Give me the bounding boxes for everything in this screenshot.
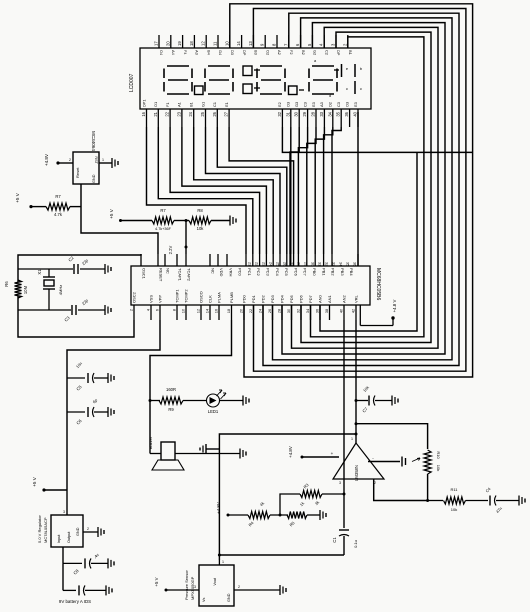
svg-text:F1: F1 <box>165 102 170 107</box>
svg-text:11: 11 <box>213 41 218 46</box>
svg-text:14: 14 <box>236 41 241 46</box>
svg-text:PD4: PD4 <box>280 294 285 303</box>
svg-text:23: 23 <box>176 111 181 116</box>
svg-text:27: 27 <box>224 111 229 116</box>
svg-text:VSS: VSS <box>149 295 154 303</box>
svg-text:PD5: PD5 <box>289 294 294 303</box>
svg-text:35: 35 <box>346 262 350 266</box>
svg-text:O2: O2 <box>265 50 270 55</box>
svg-text:d: d <box>329 94 331 98</box>
wire OSC2 net <box>18 296 134 337</box>
capacitor C5 <box>67 361 114 392</box>
wire buzzer net from MCU <box>150 320 232 447</box>
svg-text:+4.8 V: +4.8 V <box>392 300 397 313</box>
svg-text:19: 19 <box>177 41 182 46</box>
svg-text:DP: DP <box>336 50 341 56</box>
ground at sensor <box>234 585 286 595</box>
svg-text:AN0: AN0 <box>318 294 323 303</box>
ground at regulator <box>83 527 104 537</box>
svg-text:PD1: PD1 <box>251 294 256 303</box>
svg-text:+4.8V: +4.8V <box>44 153 49 166</box>
svg-text:6: 6 <box>156 309 160 311</box>
crystal X1 <box>37 269 63 310</box>
svg-text:27: 27 <box>290 262 294 266</box>
svg-text:VDD: VDD <box>219 268 224 277</box>
svg-text:O4: O4 <box>159 50 164 56</box>
op-amp minus wire to trimpot wiper <box>368 456 420 467</box>
svg-text:PC0: PC0 <box>238 268 243 277</box>
svg-text:CLK: CLK <box>208 295 213 303</box>
pressure sensor U6 MPX5050GP <box>184 560 234 606</box>
svg-text:40: 40 <box>353 111 358 116</box>
svg-text:VRL: VRL <box>354 294 359 303</box>
svg-text:+4.8V: +4.8V <box>288 446 293 458</box>
svg-text:GND: GND <box>92 174 96 183</box>
svg-text:PC6: PC6 <box>293 268 298 277</box>
LED1 <box>207 390 250 414</box>
svg-text:18: 18 <box>189 41 194 46</box>
svg-text:30: 30 <box>311 262 315 266</box>
+4.8V to MC34064 input <box>44 153 73 166</box>
svg-text:G2: G2 <box>313 50 318 55</box>
svg-text:29: 29 <box>304 262 308 266</box>
wire staircase: display bottom-left pins to MCU top pins <box>147 127 294 254</box>
svg-text:2: 2 <box>130 309 134 311</box>
svg-text:A4: A4 <box>171 50 176 56</box>
svg-text:TCMP2: TCMP2 <box>184 289 189 303</box>
svg-text:PB3: PB3 <box>340 268 345 276</box>
svg-text:VRH: VRH <box>228 268 233 277</box>
svg-text:+5 V: +5 V <box>32 476 37 487</box>
svg-text:E3: E3 <box>311 102 316 107</box>
op-amp U5 LM358 <box>333 437 384 485</box>
svg-text:32: 32 <box>297 309 301 313</box>
svg-text:B3: B3 <box>254 50 259 55</box>
svg-text:4MHz: 4MHz <box>58 285 63 295</box>
svg-text:33: 33 <box>319 111 324 116</box>
svg-text:c: c <box>360 86 362 91</box>
svg-text:10M: 10M <box>23 285 28 294</box>
svg-text:36: 36 <box>316 309 320 313</box>
svg-text:C3: C3 <box>302 102 307 107</box>
capacitor C2 22p <box>67 255 111 274</box>
svg-text:33: 33 <box>332 262 336 266</box>
svg-text:+5 V: +5 V <box>109 208 114 219</box>
capacitor C1 <box>218 530 358 557</box>
svg-text:NC: NC <box>211 268 216 274</box>
svg-text:30: 30 <box>287 309 291 313</box>
svg-text:PB1: PB1 <box>321 268 326 276</box>
svg-text:2: 2 <box>69 158 71 162</box>
svg-text:PLMA: PLMA <box>217 292 222 303</box>
svg-text:LM358N: LM358N <box>354 465 359 481</box>
svg-text:A3: A3 <box>319 102 324 107</box>
svg-text:c: c <box>346 86 348 91</box>
svg-text:10: 10 <box>182 309 186 313</box>
svg-text:36: 36 <box>344 111 349 116</box>
resistor R6 10M <box>4 280 28 298</box>
svg-text:38: 38 <box>325 309 329 313</box>
svg-text:Output: Output <box>67 531 71 543</box>
svg-text:Vs: Vs <box>202 597 206 602</box>
resistor R4 <box>247 501 288 528</box>
svg-text:PC2: PC2 <box>256 268 261 277</box>
svg-text:PC3: PC3 <box>266 268 271 277</box>
svg-text:22: 22 <box>249 309 253 313</box>
svg-text:PC1: PC1 <box>247 268 252 277</box>
svg-text:1: 1 <box>351 437 353 441</box>
ground tap on sensor line <box>200 444 219 454</box>
svg-text:B2: B2 <box>301 50 306 55</box>
svg-text:20: 20 <box>165 41 170 46</box>
svg-text:2: 2 <box>87 527 89 531</box>
svg-text:10k: 10k <box>436 465 441 471</box>
svg-text:2.2V: 2.2V <box>168 245 173 254</box>
svg-text:24: 24 <box>259 309 263 313</box>
MCU U1 MC68HC05B16 <box>130 254 382 320</box>
svg-text:G3: G3 <box>294 102 299 107</box>
ground at MC34064 <box>99 158 118 168</box>
svg-text:E3: E3 <box>353 102 358 107</box>
svg-text:GND: GND <box>76 527 80 536</box>
svg-text:LED1: LED1 <box>208 409 219 414</box>
svg-text:24: 24 <box>188 111 193 116</box>
svg-text:3: 3 <box>63 510 65 514</box>
svg-text:4.7k: 4.7k <box>54 212 63 217</box>
svg-text:F2: F2 <box>289 50 294 55</box>
input cap C8 <box>63 547 114 576</box>
capacitor C6 <box>67 397 114 426</box>
svg-text:R9: R9 <box>168 407 174 412</box>
svg-text:TCAP2: TCAP2 <box>187 268 192 282</box>
svg-text:R10: R10 <box>436 451 441 459</box>
svg-text:26: 26 <box>212 111 217 116</box>
svg-text:22: 22 <box>165 111 170 116</box>
wire: MCU pin to C1 and op-amp pin3 <box>343 320 345 528</box>
svg-text:+5 V: +5 V <box>15 192 20 203</box>
resistor R9 160R <box>149 387 207 412</box>
svg-text:Reset: Reset <box>75 167 80 178</box>
+4.8V to R4 <box>216 502 248 516</box>
svg-text:26: 26 <box>283 262 287 266</box>
svg-text:Pressure Sensor: Pressure Sensor <box>184 570 189 600</box>
svg-text:21: 21 <box>153 111 158 116</box>
svg-text:D3: D3 <box>230 50 235 55</box>
op-amp plus input wire with +4.8V <box>288 446 339 458</box>
svg-text:22: 22 <box>255 262 259 266</box>
svg-text:G4: G4 <box>218 50 223 56</box>
resistor R11 chain to ground <box>426 486 525 514</box>
svg-text:25: 25 <box>276 262 280 266</box>
wire OSC1 net <box>18 254 141 282</box>
svg-text:10: 10 <box>224 41 229 46</box>
svg-text:TCAP1: TCAP1 <box>178 268 183 282</box>
svg-text:10k: 10k <box>197 226 205 231</box>
svg-text:34: 34 <box>339 262 343 266</box>
svg-text:36: 36 <box>353 262 357 266</box>
wire: display pin to long net at y=152 <box>282 127 472 152</box>
svg-text:C2: C2 <box>324 50 329 55</box>
svg-text:R8: R8 <box>197 208 203 213</box>
+5V label at regulator output <box>32 476 67 491</box>
svg-text:TCMP1: TCMP1 <box>175 289 180 303</box>
svg-text:G1: G1 <box>200 102 205 107</box>
svg-text:OSCO: OSCO <box>199 291 204 303</box>
svg-text:B1: B1 <box>189 102 194 107</box>
resistor R5 4.7k and +5V <box>15 192 81 217</box>
buzzer LS1 <box>148 436 246 470</box>
wire +5V rail from MCU <box>67 320 160 490</box>
svg-text:LCD007: LCD007 <box>129 73 135 92</box>
resistor R3 feedback <box>280 482 346 515</box>
svg-text:30: 30 <box>294 111 299 116</box>
svg-text:34: 34 <box>327 111 332 116</box>
svg-text:PB0: PB0 <box>312 268 317 276</box>
voltage regulator U4 MC78L05ACP <box>37 490 83 547</box>
wire: reset net <box>81 184 158 254</box>
svg-text:4.7k+36F: 4.7k+36F <box>155 227 172 231</box>
svg-text:PC4: PC4 <box>275 268 280 277</box>
wire bundle: display top pins to right-side verticals <box>230 4 473 377</box>
svg-text:13: 13 <box>248 41 253 46</box>
svg-text:E1: E1 <box>224 102 229 107</box>
svg-text:B4: B4 <box>206 50 211 56</box>
svg-text:MC34064: MC34064 <box>91 131 96 151</box>
resistor R5b <box>287 501 326 528</box>
svg-text:16: 16 <box>141 111 146 116</box>
svg-text:O1: O1 <box>153 102 158 107</box>
svg-text:29: 29 <box>302 111 307 116</box>
svg-text:12: 12 <box>201 41 206 46</box>
+5V with R7 R8 to ground <box>109 208 236 231</box>
svg-text:PD2: PD2 <box>261 294 266 303</box>
svg-text:31: 31 <box>285 111 290 116</box>
trimpot R10 <box>355 422 442 500</box>
wire op-amp output to MCU <box>355 320 357 443</box>
svg-text:1: 1 <box>222 560 224 564</box>
svg-text:1: 1 <box>102 158 104 162</box>
svg-text:R7: R7 <box>160 208 166 213</box>
svg-text:X1: X1 <box>37 269 42 275</box>
svg-text:AN2: AN2 <box>342 294 347 303</box>
svg-text:20: 20 <box>240 309 244 313</box>
svg-text:VPP: VPP <box>158 295 163 303</box>
svg-text:O3: O3 <box>344 102 349 107</box>
svg-text:A2: A2 <box>277 50 282 55</box>
svg-text:PB4: PB4 <box>349 268 354 276</box>
svg-text:32: 32 <box>277 111 282 116</box>
svg-text:Vout: Vout <box>213 577 217 586</box>
svg-text:A1: A1 <box>177 102 182 107</box>
svg-text:42: 42 <box>352 309 356 313</box>
svg-text:A3: A3 <box>195 50 200 55</box>
svg-text:5.0 V Regulator: 5.0 V Regulator <box>37 515 42 543</box>
svg-text:9V battery A IDS: 9V battery A IDS <box>59 599 91 604</box>
wire 2.2V tap to MCU pin <box>168 221 188 255</box>
svg-text:AN1: AN1 <box>327 294 332 303</box>
svg-text:OSC1: OSC1 <box>142 268 147 280</box>
svg-text:0.1u: 0.1u <box>353 540 358 548</box>
svg-text:16: 16 <box>215 309 219 313</box>
svg-text:NC: NC <box>166 268 171 274</box>
svg-text:D2: D2 <box>328 102 333 107</box>
svg-text:2: 2 <box>238 585 240 589</box>
wire vertical x=417 from long net <box>320 152 417 331</box>
svg-text:DP1: DP1 <box>141 99 146 107</box>
svg-text:GND: GND <box>227 593 231 602</box>
svg-text:3: 3 <box>194 585 196 589</box>
svg-text:RST: RST <box>94 156 98 164</box>
svg-text:R11: R11 <box>450 487 458 492</box>
svg-text:26: 26 <box>268 309 272 313</box>
svg-text:PB2: PB2 <box>331 268 336 276</box>
svg-text:MC68HC05B6: MC68HC05B6 <box>375 268 381 300</box>
svg-text:8: 8 <box>173 309 177 311</box>
svg-text:24: 24 <box>269 262 273 266</box>
svg-text:+5 V: +5 V <box>154 577 159 586</box>
svg-text:18: 18 <box>227 309 231 313</box>
svg-text:PD7: PD7 <box>308 294 313 303</box>
svg-text:R7: R7 <box>55 194 61 199</box>
svg-text:28: 28 <box>278 309 282 313</box>
svg-text:17: 17 <box>154 41 159 46</box>
svg-text:DP: DP <box>242 50 247 56</box>
+4.8V tap at MCU <box>360 300 397 326</box>
svg-text:PD0: PD0 <box>242 294 247 303</box>
wire: output node to sensor Vout <box>219 433 357 561</box>
svg-text:25: 25 <box>200 111 205 116</box>
reset supervisor U3 MC34064 <box>73 131 99 184</box>
svg-text:28: 28 <box>311 111 316 116</box>
svg-text:C3: C3 <box>336 102 341 107</box>
svg-text:+: + <box>331 451 334 456</box>
svg-text:R6: R6 <box>4 281 9 287</box>
LCD display U2 <box>129 48 371 109</box>
svg-text:B1: B1 <box>348 50 353 55</box>
svg-text:MC78L05ACP: MC78L05ACP <box>43 517 48 543</box>
display top pins <box>154 35 354 56</box>
svg-text:40: 40 <box>340 309 344 313</box>
svg-text:PD6: PD6 <box>299 294 304 303</box>
svg-text:3: 3 <box>339 481 341 485</box>
svg-text:35: 35 <box>336 111 341 116</box>
display bottom pins <box>141 99 358 127</box>
svg-text:4: 4 <box>147 309 151 311</box>
svg-text:12: 12 <box>197 309 201 313</box>
svg-text:23: 23 <box>262 262 266 266</box>
svg-text:32: 32 <box>325 262 329 266</box>
svg-text:160R: 160R <box>166 387 176 392</box>
svg-text:C1: C1 <box>212 102 217 107</box>
svg-text:PD3: PD3 <box>270 294 275 303</box>
input cap C9 <box>63 563 112 595</box>
capacitor C7 on output <box>355 385 399 414</box>
svg-text:PLMB: PLMB <box>229 292 234 303</box>
capacitor C3 22p <box>63 297 111 322</box>
svg-text:14: 14 <box>206 309 210 313</box>
svg-text:Input: Input <box>57 534 61 543</box>
svg-text:RESET: RESET <box>159 268 164 282</box>
svg-text:PC7: PC7 <box>303 268 308 277</box>
svg-text:31: 31 <box>318 262 322 266</box>
svg-text:10k: 10k <box>451 507 457 512</box>
svg-text:OSC2: OSC2 <box>132 291 137 303</box>
svg-text:+4.8V: +4.8V <box>216 502 221 514</box>
svg-text:O3: O3 <box>286 102 291 107</box>
svg-text:21: 21 <box>248 262 252 266</box>
svg-text:34: 34 <box>306 309 310 313</box>
svg-text:28: 28 <box>297 262 301 266</box>
svg-text:C1: C1 <box>332 537 337 543</box>
svg-text:PC5: PC5 <box>284 268 289 277</box>
wire staircase: display bottom-right pins to MCU top pins <box>290 112 358 266</box>
svg-text:E2: E2 <box>277 102 282 107</box>
+5V to sensor <box>154 577 199 591</box>
